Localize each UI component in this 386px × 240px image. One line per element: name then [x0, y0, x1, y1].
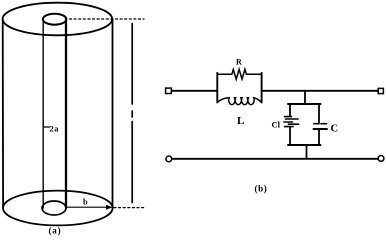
- radius line b with arrowhead: [67, 206, 110, 208]
- terminal top-left square: [166, 88, 172, 93]
- inner rod top ellipse: [43, 14, 66, 25]
- inductor L branch: [217, 98, 261, 105]
- capacitor C bottom plate: [314, 128, 328, 130]
- variable capacitor Cl strokes: [284, 117, 299, 127]
- cylinder outer left side line: [2, 19, 4, 208]
- wire right cap branch lower: [318, 130, 320, 145]
- svg-text:L: L: [237, 115, 244, 127]
- inner rod right side line: [65, 19, 67, 208]
- height dimension line (dash-dot): [131, 24, 133, 203]
- svg-text:R: R: [236, 58, 242, 67]
- wire top-left: [172, 90, 218, 92]
- svg-text:C: C: [331, 124, 339, 135]
- terminal bottom-right circle: [378, 156, 384, 162]
- svg-text:(b): (b): [255, 184, 268, 194]
- node drop wire: [304, 91, 306, 104]
- cylinder outer top ellipse: [3, 3, 113, 36]
- svg-text:(a): (a): [49, 226, 62, 236]
- top dotted extension line: [70, 18, 145, 20]
- capacitor C top plate (dashed): [314, 123, 327, 125]
- wire left cap branch upper: [289, 104, 291, 116]
- svg-text:b: b: [83, 196, 88, 206]
- cylinder outer bottom ellipse: [3, 191, 113, 226]
- RL box right bar: [261, 73, 263, 103]
- svg-text:2a: 2a: [50, 124, 60, 134]
- bottom dotted extension line: [114, 207, 144, 209]
- inner rod bottom ellipse: [42, 201, 66, 215]
- stub to bottom wire: [306, 145, 308, 159]
- inner rod left side line: [42, 19, 44, 208]
- terminal bottom-left circle: [166, 156, 172, 162]
- cylinder outer right side line: [112, 19, 114, 208]
- wire left cap branch lower: [289, 128, 291, 145]
- bottom wire: [172, 158, 378, 160]
- wire right cap branch upper: [318, 104, 320, 122]
- resistor R branch: [217, 69, 261, 79]
- tick for 2a label: [43, 126, 49, 128]
- svg-text:Cl: Cl: [272, 120, 281, 130]
- RL box left bar: [216, 73, 218, 103]
- wire top-right: [262, 90, 378, 92]
- terminal top-right square: [378, 88, 383, 93]
- top bar of capacitor pair: [288, 103, 321, 105]
- bottom bar of capacitor pair: [288, 144, 321, 146]
